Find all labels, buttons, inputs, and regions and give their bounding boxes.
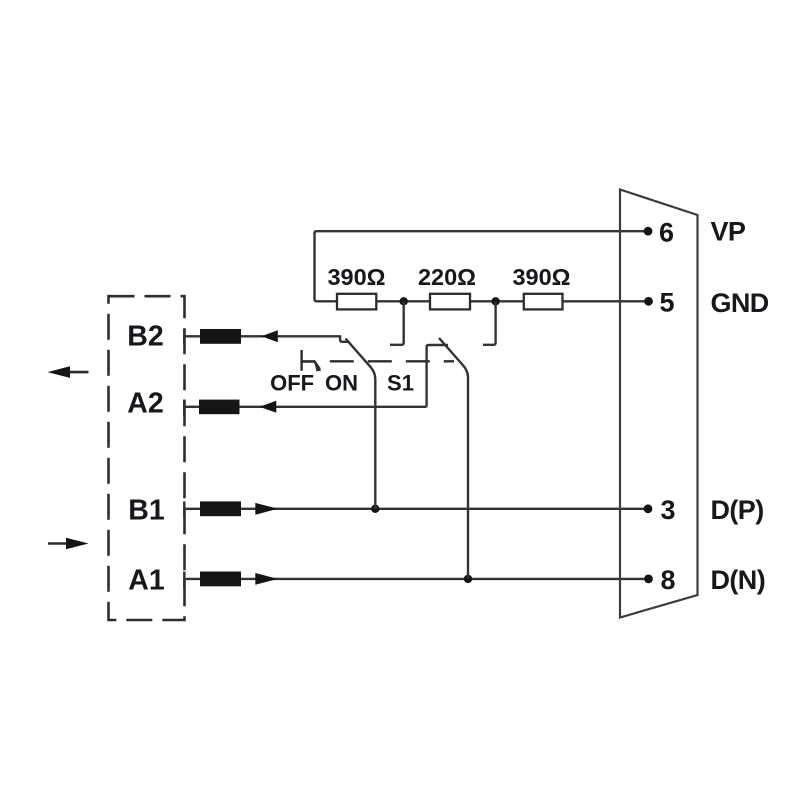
switch S1 pole 1 lever and wire down to B1 — [346, 339, 376, 509]
resistor R1 390 ohm — [327, 264, 385, 309]
svg-text:ON: ON — [325, 371, 358, 396]
stub wire A1 — [184, 578, 201, 580]
switch S1 pole 1 contact step — [340, 335, 349, 342]
terminal body B1 (black rectangle) — [200, 501, 241, 516]
terminal pin tick B2 — [183, 329, 185, 345]
resistor R3 390 ohm — [512, 264, 570, 309]
stub wire A2 — [184, 406, 200, 408]
wire A2 to switch riser — [240, 406, 427, 408]
wire VP: pin 6 to top of resistor network — [315, 231, 649, 301]
svg-text:5: 5 — [660, 288, 675, 318]
switch S1 pole 2 lever and wire down to A1 — [439, 338, 468, 579]
wire R2 to R3 — [470, 300, 524, 302]
junction node 2 — [491, 297, 499, 305]
svg-text:GND: GND — [711, 288, 769, 318]
arrowhead A1 (pointing right) — [255, 573, 277, 585]
stub wire B2 — [184, 335, 201, 337]
pin 5 — [644, 288, 674, 318]
svg-text:B1: B1 — [128, 495, 165, 527]
resistor R2 220 ohm — [418, 264, 476, 309]
terminal body A2 (black rectangle) — [199, 400, 240, 415]
switch S1 fixed contact drop from node 2 — [483, 301, 496, 345]
pin 3 — [644, 495, 676, 525]
svg-text:390Ω: 390Ω — [512, 264, 570, 290]
direction arrow in (bottom left) — [48, 538, 89, 550]
svg-text:S1: S1 — [387, 371, 414, 396]
arrowhead B1 (pointing right) — [255, 503, 277, 515]
switch S1 position indicator (OFF/ON) — [302, 350, 322, 372]
svg-text:VP: VP — [711, 217, 746, 247]
wire R3 to connector pin 5 — [563, 300, 649, 302]
svg-text:OFF: OFF — [270, 371, 314, 396]
pin 8 — [644, 565, 675, 595]
stub wire B1 — [184, 508, 201, 510]
connector X1 (D-sub body) — [620, 190, 698, 618]
svg-text:3: 3 — [661, 495, 676, 525]
junction dot A1 / switch pole 2 — [464, 575, 472, 583]
svg-text:B2: B2 — [127, 321, 163, 353]
pin 6 — [644, 218, 674, 248]
arrowhead B2 (pointing left) — [262, 330, 278, 342]
switch S1 fixed contact drop from node 1 — [390, 301, 404, 345]
svg-text:390Ω: 390Ω — [327, 264, 385, 290]
terminal pin tick A1 — [183, 572, 185, 588]
wire A2 riser and switch plate (pole 2 fixed contact) — [427, 345, 448, 407]
svg-text:220Ω: 220Ω — [418, 264, 476, 290]
wire A1 to connector pin 8 — [241, 578, 648, 580]
svg-text:8: 8 — [661, 565, 676, 595]
arrowhead A2 (pointing left) — [260, 401, 277, 413]
terminal body A1 (black rectangle) — [200, 572, 241, 587]
terminal block dashed box — [109, 296, 185, 620]
wire B1 to connector pin 3 — [241, 508, 648, 510]
svg-text:D(N): D(N) — [711, 565, 766, 595]
wire R1 to R2 — [376, 300, 430, 302]
junction node 1 — [400, 297, 408, 305]
junction dot B1 / switch pole 1 — [371, 505, 379, 513]
terminal pin tick B1 — [183, 501, 185, 517]
svg-text:A2: A2 — [127, 387, 163, 419]
svg-text:A1: A1 — [128, 565, 165, 597]
svg-text:D(P): D(P) — [711, 495, 764, 525]
terminal body B2 (black rectangle) — [200, 329, 241, 344]
svg-text:6: 6 — [659, 218, 674, 248]
switch S1 coupling dashed line — [330, 360, 454, 362]
direction arrow out (top left) — [48, 366, 89, 378]
wire B2 to switch — [241, 335, 340, 337]
terminal pin tick A2 — [183, 400, 185, 416]
